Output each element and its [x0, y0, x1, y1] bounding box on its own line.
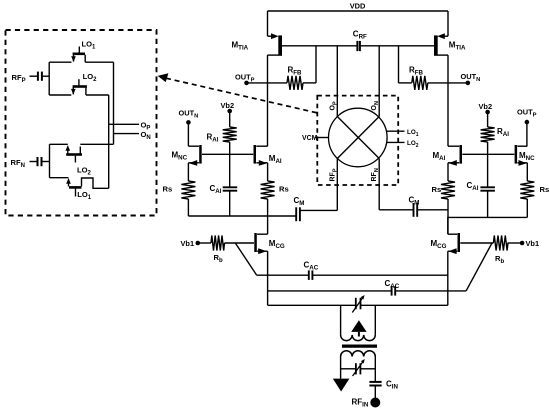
transistor switch LO1 (bottom)	[75, 189, 77, 197]
node: RFP branch wire	[48, 62, 50, 95]
transformer primary right lead	[374, 305, 376, 335]
LO2 stub + label	[386, 141, 404, 143]
svg-text:Vb1: Vb1	[181, 239, 195, 248]
capacitor C_AC (upper)	[308, 270, 310, 280]
wire gate-to-RFB (right)	[398, 46, 400, 83]
transistor M_NC (left)	[199, 145, 202, 164]
resistor R_AI (left)	[229, 111, 231, 127]
svg-text:Rs: Rs	[279, 185, 289, 194]
capacitor C_AI (left)	[223, 186, 238, 188]
transistor switch LO2 (upper)	[78, 79, 80, 85]
wire gate-to-RFB (left)	[315, 46, 317, 83]
cross-couple diagonal (right)	[466, 243, 492, 291]
svg-text:Rs: Rs	[163, 185, 173, 194]
OUT_N node (right)	[466, 81, 471, 86]
capacitor C_RF	[356, 41, 358, 51]
OUT_P node (left)	[244, 81, 249, 86]
transistor M_AI (right)	[460, 145, 463, 164]
svg-text:Vb2: Vb2	[221, 101, 235, 110]
Vb1 node (right)	[520, 241, 525, 246]
transistor M_TIA (right PMOS)	[447, 11, 449, 36]
svg-text:Rs: Rs	[540, 185, 550, 194]
RF_IN port	[370, 398, 380, 408]
dashed arrow (zoom-in callout)	[166, 78, 317, 113]
transistor M_NC (right)	[515, 145, 518, 164]
up arrow (coupling)	[351, 320, 366, 332]
svg-text:Vb1: Vb1	[526, 239, 540, 248]
transformer primary left lead	[340, 305, 342, 335]
transistor M_CG (left)	[254, 233, 256, 252]
resistor Rs (right inner)	[441, 181, 455, 199]
wire: vertical to O_N (from LO1 top)	[113, 62, 115, 144]
gate line (right block)	[462, 153, 514, 155]
Vb2 node (left)	[227, 109, 232, 114]
svg-text:Vb2: Vb2	[479, 102, 493, 111]
capacitor at RF_P	[30, 75, 38, 77]
wire RF_P vertical	[336, 159, 338, 211]
transformer secondary coil	[341, 351, 376, 357]
resistor Rs (left inner)	[261, 181, 275, 199]
VCM label + stub	[315, 137, 329, 139]
resistor R_FB (right)	[399, 82, 412, 84]
mixer X	[337, 117, 379, 159]
transistor M_CG (right)	[458, 233, 461, 252]
transformer secondary right lead	[374, 357, 376, 382]
OUT_P node (right)	[525, 120, 530, 125]
O_N line	[114, 133, 140, 135]
VDD rail	[268, 10, 449, 12]
variable capacitor (secondary tank)	[341, 368, 356, 370]
left block source rail	[188, 215, 296, 217]
ground arrow	[333, 379, 350, 392]
C_AC line (lower)	[268, 290, 392, 292]
OUT_N node (left block)	[186, 120, 191, 125]
dashed detail box (passive mixer zoom-in)	[6, 30, 157, 216]
resistor R_b (left)	[198, 242, 211, 244]
Vb2 node (right)	[485, 110, 490, 115]
resistor R_FB (left)	[247, 82, 288, 84]
resistor Rs (right outer)	[520, 181, 534, 199]
capacitor C_M (right)	[379, 209, 413, 211]
transformer secondary left lead	[340, 357, 342, 379]
node: RFN branch wire	[49, 144, 51, 177]
Vb1 node (left)	[196, 241, 201, 246]
LO1 stub + label	[386, 130, 404, 132]
capacitor C_IN	[369, 381, 381, 383]
O_P line	[109, 123, 139, 125]
mixer dashed box	[317, 96, 398, 185]
svg-text:VDD: VDD	[350, 2, 366, 11]
capacitor C_AC (lower)	[391, 286, 393, 296]
wire O_P vertical	[336, 46, 338, 117]
resistor Rs (left outer)	[181, 181, 195, 199]
cross-couple diagonal (left)	[235, 243, 256, 275]
capacitor C_AI (right)	[480, 186, 495, 188]
transistor M_AI (left)	[254, 145, 257, 164]
bottom rail	[268, 304, 356, 306]
transformer core	[342, 345, 377, 348]
wire RF_N vertical	[378, 159, 380, 210]
variable capacitor (primary tank)	[355, 298, 357, 310]
resistor R_AI (right)	[487, 112, 489, 127]
wire O_N vertical	[378, 46, 380, 117]
svg-text:Rs: Rs	[432, 185, 442, 194]
wire OUTN to M_NC	[187, 122, 189, 146]
resistor R_b (right)	[508, 242, 523, 244]
transformer primary coil	[341, 335, 376, 341]
C_AC line (upper)	[257, 274, 309, 276]
transistor M_TIA (left PMOS)	[267, 11, 269, 36]
capacitor at RF_N	[30, 161, 38, 163]
transistor switch LO2 (lower)	[74, 156, 76, 163]
wire: vertical to O_P (from LO2 top)	[108, 95, 110, 188]
svg-text:VCM: VCM	[302, 135, 318, 142]
gate line (left block)	[202, 153, 253, 155]
transistor switch LO1 (top)	[78, 47, 80, 53]
mixer circle	[329, 108, 388, 167]
right block source rail	[447, 216, 527, 218]
capacitor C_M (left)	[295, 207, 297, 221]
gate feed line (left)	[282, 45, 358, 47]
